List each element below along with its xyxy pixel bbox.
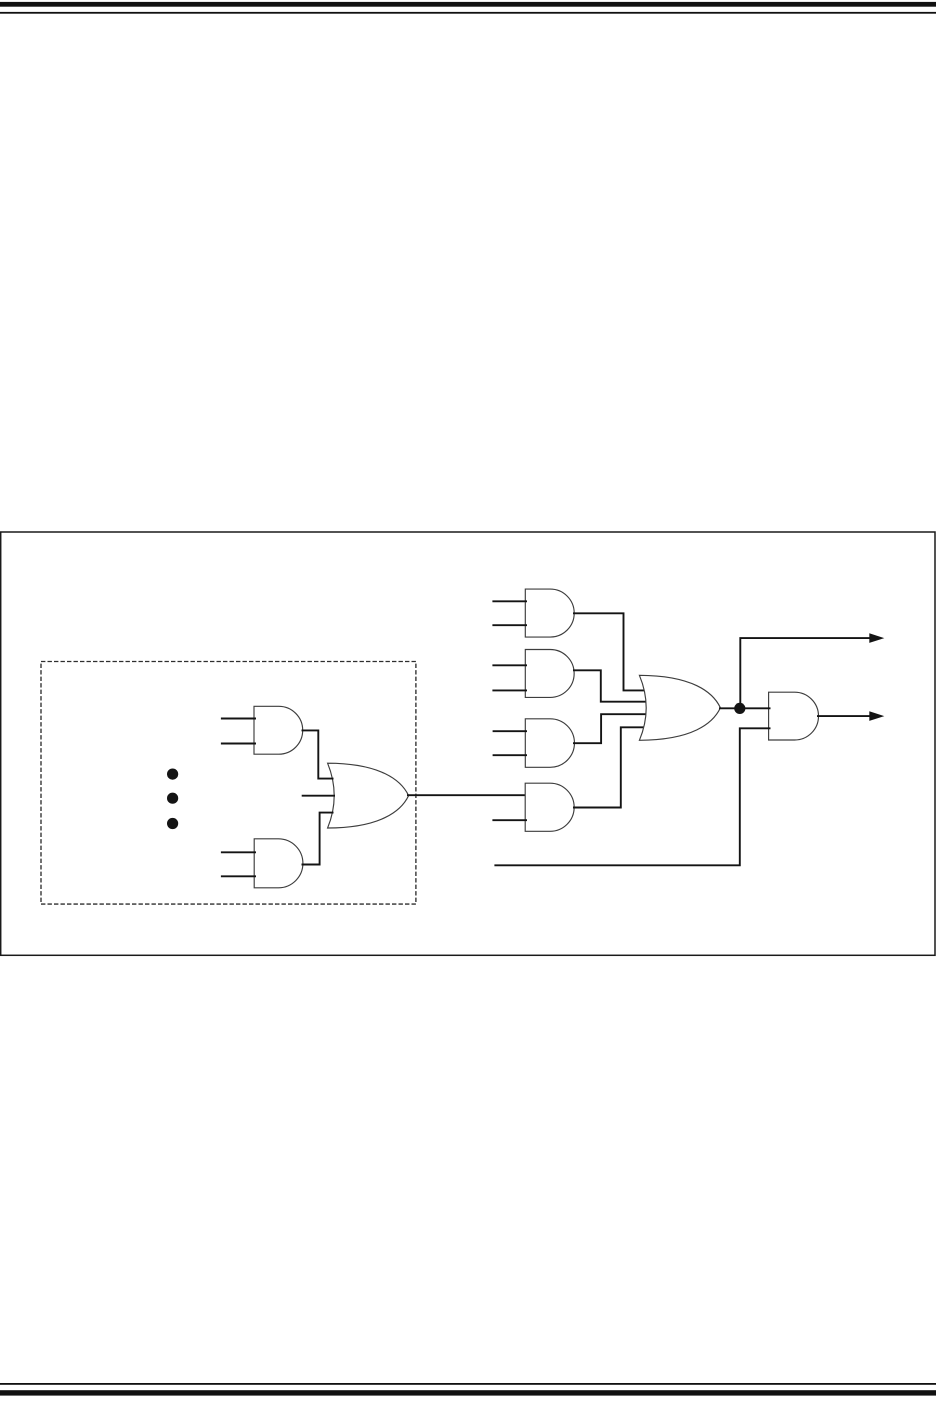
and-gate A4	[525, 783, 574, 831]
wire A1 input 2	[492, 624, 527, 626]
and-gate G2 (inner bottom)	[254, 839, 303, 888]
wire A2 output to O1	[573, 670, 647, 701]
header thick rule	[0, 2, 936, 7]
wire G1 input 2	[221, 743, 256, 745]
wire feedback to A5 input 2	[494, 728, 770, 865]
wire A3 input 2	[493, 754, 527, 756]
node N1 junction	[734, 703, 745, 714]
ellipsis dots	[167, 769, 178, 830]
and-gate A3	[525, 719, 574, 768]
wire G1 input 1	[221, 718, 256, 720]
wire A4 output to O1	[573, 727, 645, 807]
wire O1 output to A5 input 1	[719, 707, 771, 709]
or-gate O1	[639, 675, 720, 740]
arrowhead upper output	[869, 633, 884, 643]
wire G2 input 1	[221, 851, 256, 853]
wire A2 input 2	[492, 689, 527, 691]
wire A3 input 1	[493, 730, 527, 732]
figure frame	[1, 532, 935, 955]
wire G1 output to G3	[302, 730, 334, 778]
wire A1 output to O1	[573, 613, 646, 690]
and-gate A1	[525, 589, 574, 637]
and-gate G1 (inner top)	[254, 706, 303, 754]
wire G3 middle input	[302, 795, 335, 797]
and-gate A5 (output)	[769, 692, 819, 740]
wire A5 output	[817, 715, 870, 717]
dashed sub-circuit box	[41, 662, 416, 905]
wire A1 input 1	[492, 600, 527, 602]
wire node N1 up to upper output	[740, 638, 870, 708]
wire A4 input 2	[492, 819, 527, 821]
header thin rule	[0, 12, 936, 14]
wire G2 output to G3	[302, 813, 334, 865]
wire A2 input 1	[492, 664, 527, 666]
or-gate G3 (inner)	[328, 763, 409, 828]
wire G3 output to A4 input 1	[407, 794, 527, 796]
and-gate A2	[525, 650, 574, 698]
arrowhead lower output	[869, 711, 884, 721]
wire G2 input 2	[221, 875, 256, 877]
footer thick rule	[0, 1390, 936, 1395]
footer thin rule	[0, 1383, 936, 1385]
wire A3 output to O1	[573, 714, 647, 743]
